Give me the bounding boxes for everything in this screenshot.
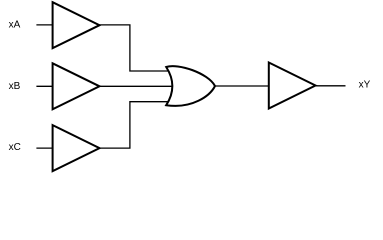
svg-text:xB: xB (9, 81, 21, 92)
svg-text:xC: xC (9, 142, 21, 153)
svg-text:xY: xY (359, 80, 371, 91)
svg-text:xA: xA (9, 20, 21, 31)
